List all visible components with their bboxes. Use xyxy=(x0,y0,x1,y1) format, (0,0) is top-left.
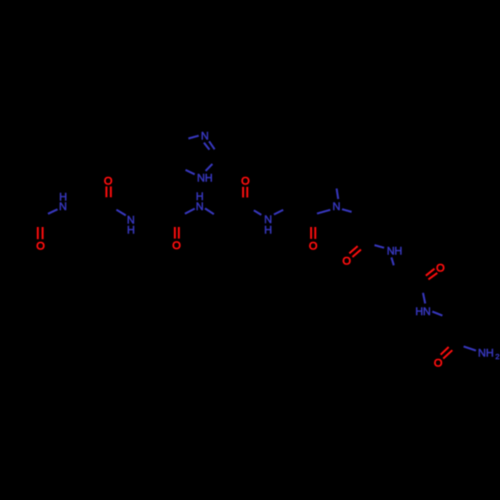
svg-text:H: H xyxy=(127,224,135,236)
svg-text:H: H xyxy=(394,245,402,257)
svg-text:O: O xyxy=(434,357,443,369)
svg-text:N: N xyxy=(478,347,486,359)
svg-text:O: O xyxy=(36,241,45,253)
svg-text:N: N xyxy=(59,201,67,213)
svg-text:N: N xyxy=(196,201,204,213)
svg-text:O: O xyxy=(241,176,250,188)
svg-text:N: N xyxy=(333,201,341,213)
svg-text:O: O xyxy=(436,263,445,275)
svg-text:H: H xyxy=(205,172,213,184)
svg-text:O: O xyxy=(172,240,181,252)
svg-text:O: O xyxy=(104,175,113,187)
svg-text:N: N xyxy=(201,130,209,142)
svg-text:O: O xyxy=(309,241,318,253)
svg-text:H: H xyxy=(486,347,494,359)
svg-text:H: H xyxy=(264,225,272,237)
svg-text:2: 2 xyxy=(495,352,499,361)
svg-text:N: N xyxy=(423,306,431,318)
svg-text:O: O xyxy=(342,256,351,268)
